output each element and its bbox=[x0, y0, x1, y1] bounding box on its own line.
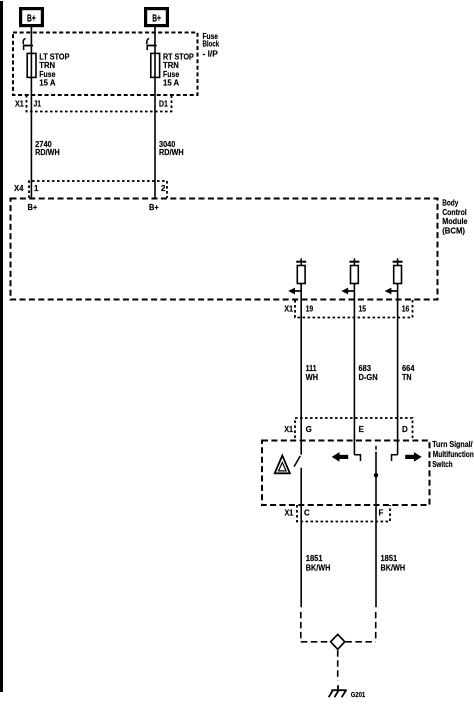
svg-text:19: 19 bbox=[306, 304, 314, 313]
svg-text:1: 1 bbox=[34, 184, 39, 193]
svg-text:Turn Signal/: Turn Signal/ bbox=[432, 440, 473, 449]
svg-text:Fuse: Fuse bbox=[39, 70, 56, 79]
svg-text:Module: Module bbox=[442, 217, 468, 226]
svg-text:Fuse: Fuse bbox=[163, 70, 180, 79]
svg-text:(BCM): (BCM) bbox=[442, 226, 465, 235]
svg-text:X4: X4 bbox=[14, 184, 24, 193]
svg-text:TRN: TRN bbox=[39, 61, 55, 70]
svg-text:15 A: 15 A bbox=[39, 79, 55, 88]
svg-text:RT STOP: RT STOP bbox=[163, 52, 194, 61]
svg-text:D1: D1 bbox=[159, 99, 168, 108]
svg-text:1851: 1851 bbox=[381, 554, 398, 563]
svg-text:C: C bbox=[304, 509, 310, 518]
svg-text:X1: X1 bbox=[284, 304, 293, 313]
svg-text:B+: B+ bbox=[152, 12, 161, 24]
svg-text:Body: Body bbox=[442, 199, 459, 208]
svg-text:TRN: TRN bbox=[163, 61, 179, 70]
svg-text:RD/WH: RD/WH bbox=[159, 148, 184, 157]
svg-text:BK/WH: BK/WH bbox=[381, 563, 406, 572]
svg-text:Switch: Switch bbox=[432, 460, 453, 469]
svg-text:16: 16 bbox=[402, 304, 410, 313]
svg-text:B+: B+ bbox=[27, 12, 36, 24]
svg-text:G201: G201 bbox=[351, 690, 366, 699]
svg-text:15 A: 15 A bbox=[163, 79, 179, 88]
svg-text:2: 2 bbox=[161, 184, 166, 193]
svg-text:- I/P: - I/P bbox=[203, 50, 219, 59]
svg-text:X1: X1 bbox=[15, 99, 24, 108]
svg-text:Block: Block bbox=[203, 40, 220, 49]
svg-text:TN: TN bbox=[402, 373, 412, 382]
svg-text:111: 111 bbox=[306, 364, 317, 373]
svg-text:D-GN: D-GN bbox=[359, 373, 378, 382]
svg-text:D: D bbox=[402, 425, 408, 434]
svg-text:683: 683 bbox=[359, 364, 372, 373]
svg-text:Control: Control bbox=[442, 208, 467, 217]
svg-text:Multifunction: Multifunction bbox=[433, 450, 474, 459]
svg-text:J1: J1 bbox=[34, 99, 42, 108]
svg-text:X1: X1 bbox=[284, 425, 293, 434]
svg-text:B+: B+ bbox=[28, 203, 38, 212]
svg-text:B+: B+ bbox=[149, 203, 159, 212]
svg-text:15: 15 bbox=[359, 304, 367, 313]
svg-text:1851: 1851 bbox=[306, 554, 323, 563]
svg-text:RD/WH: RD/WH bbox=[35, 148, 60, 157]
svg-text:WH: WH bbox=[306, 373, 319, 382]
svg-text:X1: X1 bbox=[285, 509, 294, 518]
svg-text:F: F bbox=[379, 509, 384, 518]
svg-text:E: E bbox=[359, 425, 365, 434]
svg-text:LT STOP: LT STOP bbox=[39, 52, 70, 61]
svg-text:G: G bbox=[306, 425, 312, 434]
svg-text:BK/WH: BK/WH bbox=[306, 563, 331, 572]
svg-text:664: 664 bbox=[402, 364, 415, 373]
